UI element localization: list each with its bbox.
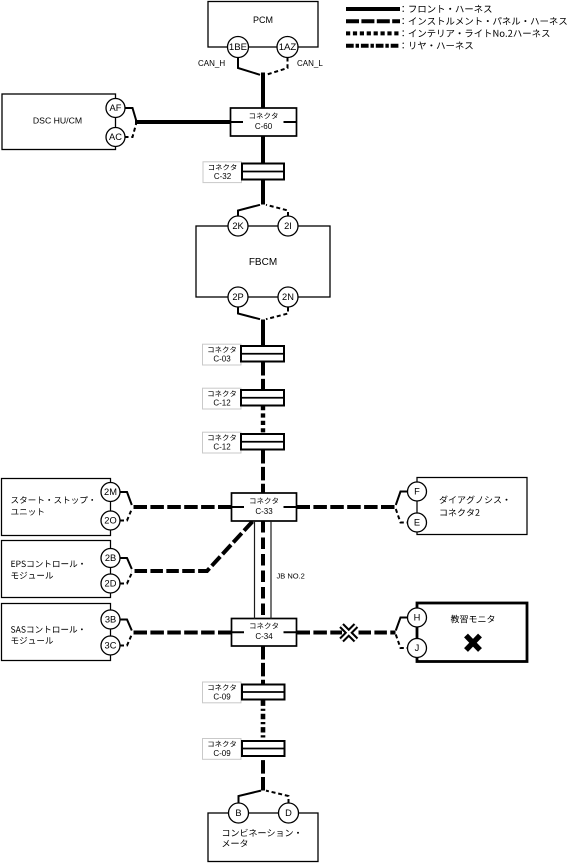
terminal 2K [228,216,248,236]
terminal 2I [278,216,298,236]
svg-text:C-32: C-32 [214,172,232,181]
svg-text:2O: 2O [104,516,116,526]
connector C-33 label konekuta [250,498,278,504]
connector C-03 label box [203,344,242,365]
wire trunk C-09 lower to meter junction [261,756,265,791]
wire lead terminal 2I [266,205,288,216]
connector C-03 label text konekuta [208,346,236,352]
connector C-12 label box [203,432,242,453]
svg-text:C-03: C-03 [213,355,231,364]
terminal AF [106,99,125,118]
svg-text:AC: AC [109,132,122,142]
wire lead terminal 2O [120,509,132,521]
box diagnosis connector 2 [417,478,527,535]
wire trunk C-12 lower to C-33 [261,450,265,493]
label EPS module line 1 [11,560,83,567]
wire trunk JB NO.2 internal C-33 to C-34 [261,521,265,619]
connector C-09 symbol [242,685,285,700]
wire lead terminal F [396,492,408,506]
terminal AC [106,128,125,147]
connector C-34 internal ticks [232,631,297,633]
legend swatch rear harness [346,44,400,48]
svg-text:JB NO.2: JB NO.2 [277,572,305,581]
connector C-09 label box [203,682,242,703]
wire trunk FBCM to C-03 [261,320,265,351]
box EPS control module [2,541,111,598]
terminal 3B [101,610,120,629]
wire SAS module to C-34 [131,631,232,635]
svg-text:C-12: C-12 [213,443,231,452]
label training monitor [451,615,495,623]
box DSC HU/CM [2,94,116,150]
connector C-12 symbol [241,434,284,450]
label diagnosis connector line 2 [440,509,479,517]
terminal 2N [278,287,298,307]
svg-text:2D: 2D [105,579,117,589]
svg-text:C-12: C-12 [213,399,231,408]
wire C-34 to monitor right of X [359,631,396,635]
wire C-34 to monitor left of X [297,631,343,635]
box training monitor [417,603,527,662]
svg-text:D: D [285,808,292,818]
svg-text:C-60: C-60 [255,122,273,131]
wire lead terminal 2D [120,573,132,584]
box SAS control module [2,604,111,661]
label SAS module line 2 [12,637,54,644]
wire lead terminal D [266,791,289,803]
crossed-out mark in training monitor [466,636,480,651]
connector C-12 label text konekuta [208,390,236,396]
wire lead terminal E [396,509,408,523]
label diagnosis connector line 1 [440,496,508,504]
svg-text:2N: 2N [282,292,294,302]
connector C-09 label box [203,739,242,760]
svg-text:C-09: C-09 [213,749,231,758]
connector C-12 label text konekuta [208,434,236,440]
terminal 2O [101,511,120,530]
wire trunk C-34 to C-09 upper [261,646,265,685]
svg-text:J: J [415,643,420,653]
connector C-32 label box [203,162,242,183]
box FBCM [196,226,330,297]
wire DSC junction to C-60 [135,120,233,124]
wire lead terminal 2N [266,308,288,320]
connector C-09 label text konekuta [208,741,236,747]
connector C-60 label konekuta [250,113,278,119]
label SAS module line 1 [11,626,83,633]
wire lead terminal B [239,791,262,803]
cut mark X on monitor wire [342,626,357,641]
wire lead terminal AF [125,108,137,121]
svg-text:2I: 2I [284,221,292,231]
connector C-09 symbol [242,741,285,756]
svg-text:C-33: C-33 [255,507,273,516]
wire trunk PCM junction to C-60 [261,73,265,113]
terminal J [408,639,427,658]
junction block JB NO.2 channel [255,521,272,619]
wire lead terminal 2M [120,492,132,505]
wire start-stop unit to C-33 [131,505,232,509]
svg-text:2P: 2P [232,292,243,302]
terminal F [408,482,427,501]
wire lead terminal 3C [120,635,132,646]
svg-text:1BE: 1BE [229,42,247,53]
wire lead terminal 2B [120,558,132,569]
terminal 2D [101,574,120,593]
svg-text:2B: 2B [105,553,116,563]
svg-text:CAN_L: CAN_L [297,59,323,68]
svg-text:CAN_H: CAN_H [198,59,225,68]
terminal 2B [101,549,120,568]
svg-text:C-09: C-09 [213,692,231,701]
wire lead terminal 1AZ [266,58,288,75]
terminal 2P [228,287,248,307]
connector C-12 label box [203,388,242,409]
label start-stop unit line 2 [11,508,43,515]
legend text interior light No.2 harness [403,29,550,37]
svg-text:E: E [414,518,420,528]
svg-text:H: H [414,613,421,623]
connector C-34 box [232,619,297,647]
wire trunk C-60 to FBCM junction [261,132,265,205]
terminal 1BE [228,37,249,58]
wire trunk C-03 to C-12 upper [261,362,265,390]
svg-text:3B: 3B [105,615,116,625]
box combination meter [208,813,318,862]
svg-text:DSC HU/CM: DSC HU/CM [33,115,82,125]
svg-text:C-34: C-34 [255,632,273,641]
wire lead terminal 2K [238,205,260,216]
label start-stop unit line 1 [11,496,93,504]
label combination meter line 1 [223,829,299,837]
connector C-60 box [231,108,297,136]
legend text rear harness [403,42,473,50]
legend swatch interior light harness [346,31,400,35]
label combination meter line 2 [223,839,248,847]
svg-text:FBCM: FBCM [249,257,277,268]
connector C-34 label konekuta [250,623,278,629]
legend text instrument panel harness [403,17,567,25]
connector C-32 symbol [242,164,284,180]
svg-text:2K: 2K [232,221,244,231]
connector C-33 box [232,493,297,521]
terminal B [229,803,249,823]
legend swatch front harness [346,7,400,11]
wire lead terminal 3B [120,620,132,631]
connector C-60 internal ticks [231,121,297,123]
box start-stop unit [2,479,111,536]
terminal 3C [101,636,120,655]
terminal 2M [101,483,120,502]
wire lead terminal 1BE [238,58,260,75]
svg-text:2M: 2M [104,487,117,497]
wire lead terminal H [396,618,408,631]
wire EPS module to C-33 with diagonal [131,522,253,572]
box PCM [208,2,318,48]
terminal E [408,513,427,532]
wire lead terminal 2P [238,308,260,320]
terminal D [279,803,299,823]
wire lead terminal AC [125,124,137,138]
svg-text:B: B [235,808,241,818]
connector C-12 symbol [241,390,284,406]
wire lead terminal J [396,635,408,649]
svg-text:1AZ: 1AZ [279,42,297,53]
connector C-03 symbol [241,346,284,362]
connector C-09 label text konekuta [208,684,236,690]
wire trunk C-09 to C-09 rear harness [261,701,266,742]
legend text front harness [403,5,492,13]
svg-text:PCM: PCM [253,15,273,25]
wire trunk C-12 to C-12 dotted [261,406,265,434]
svg-text:3C: 3C [105,641,117,651]
svg-text:F: F [414,487,420,497]
connector C-32 label text konekuta [209,164,237,170]
terminal H [408,608,427,627]
connector C-33 internal ticks [232,506,297,508]
legend swatch instrument panel harness [346,19,400,23]
label EPS module line 2 [12,572,54,579]
wire C-33 to diagnosis connector [297,505,396,509]
terminal 1AZ [277,37,298,58]
svg-text:AF: AF [110,103,122,113]
